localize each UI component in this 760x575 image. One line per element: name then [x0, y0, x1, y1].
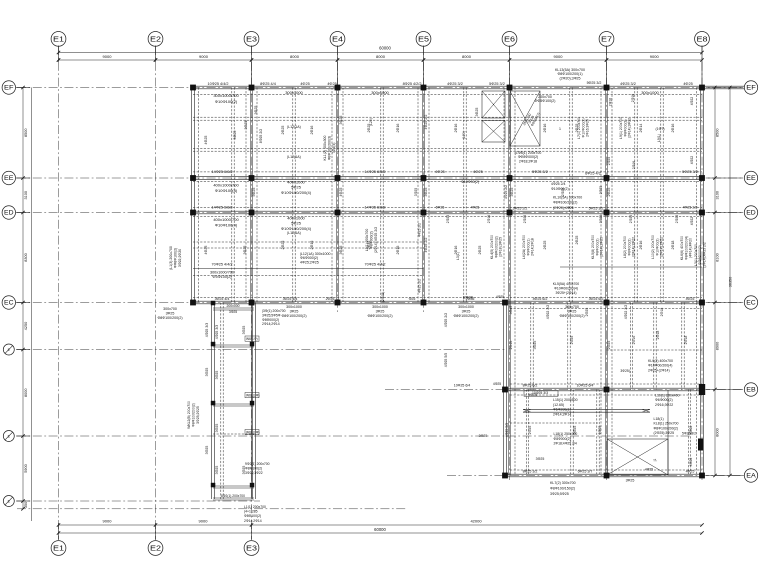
extension line E1 bottom — [58, 523, 60, 540]
svg-text:3Φ25: 3Φ25 — [339, 246, 343, 255]
svg-text:E: E — [8, 435, 11, 439]
beam KL on axis EE — [193, 176, 702, 178]
svg-text:3Φ25: 3Φ25 — [536, 457, 545, 461]
svg-text:(2Φ18): (2Φ18) — [463, 295, 474, 299]
svg-text:E2: E2 — [150, 34, 161, 43]
svg-text:4Φ22: 4Φ22 — [689, 458, 693, 467]
svg-text:4Φ25 5/5: 4Φ25 5/5 — [505, 423, 509, 438]
svg-text:9000: 9000 — [199, 519, 209, 524]
axis bubble EF right — [744, 81, 757, 94]
column x193 axis EF — [190, 85, 196, 91]
svg-text:2Φ25: 2Φ25 — [585, 308, 589, 317]
slab panel edge y207 — [193, 207, 702, 209]
column x702 axis EF — [699, 85, 705, 91]
svg-text:300x1000: 300x1000 — [372, 305, 388, 309]
svg-text:4Φ25: 4Φ25 — [645, 468, 653, 472]
svg-text:Φ8Φ000(2): Φ8Φ000(2) — [554, 437, 571, 441]
column strip left mid strip — [211, 401, 216, 406]
svg-text:8900: 8900 — [716, 342, 720, 350]
beam KL on axis EC — [193, 300, 702, 302]
secondary beam y248 — [193, 247, 424, 249]
svg-text:4Φ25 5/5: 4Φ25 5/5 — [444, 353, 448, 368]
slab panel edge wing y308 — [510, 308, 702, 310]
svg-text:4Φ25: 4Φ25 — [327, 82, 336, 86]
svg-text:2Φ25: 2Φ25 — [326, 297, 335, 301]
secondary beam wing lower x527 (double dashed) — [525, 390, 527, 476]
svg-text:300x1000/700: 300x1000/700 — [213, 93, 239, 98]
secondary beam x465 (double dashed) — [463, 88, 465, 303]
axis bubble ED left — [2, 206, 15, 219]
svg-text:2Φ25: 2Φ25 — [607, 157, 611, 165]
svg-text:8Φ25 6/2: 8Φ25 6/2 — [523, 384, 538, 388]
beam wing right edge — [700, 303, 702, 476]
svg-text:3Φ25: 3Φ25 — [229, 310, 237, 314]
slab panel edge x601 — [600, 88, 602, 303]
slab panel edge y297 — [193, 297, 702, 299]
svg-text:2Φ16: 2Φ16 — [396, 124, 400, 133]
svg-text:3Φ25: 3Φ25 — [166, 311, 175, 315]
svg-text:2Φ16: 2Φ16 — [671, 124, 675, 133]
svg-text:60000: 60000 — [374, 527, 386, 532]
secondary beam x662 (double dashed) — [660, 88, 662, 303]
svg-text:(2Φ14);2Φ25: (2Φ14);2Φ25 — [600, 237, 604, 257]
secondary beam y148 — [193, 147, 702, 149]
grid line E3 — [251, 46, 253, 539]
svg-text:4Φ25 2/2: 4Φ25 2/2 — [418, 223, 422, 237]
svg-text:3100: 3100 — [716, 191, 720, 199]
column x423 axis ED — [421, 210, 427, 216]
column strip right EC — [250, 301, 255, 306]
svg-text:9000: 9000 — [554, 54, 564, 59]
svg-text:Φ8Φ100/200(2): Φ8Φ100/200(2) — [453, 314, 478, 318]
svg-text:ΦΦ5Φ100(2): ΦΦ5Φ100(2) — [535, 99, 556, 103]
svg-text:2Φ18;2Φ18: 2Φ18;2Φ18 — [519, 159, 537, 163]
svg-text:4250: 4250 — [24, 322, 28, 330]
svg-text:5Φ25 3/2: 5Φ25 3/2 — [489, 82, 505, 86]
axis bubble ED right — [744, 206, 757, 219]
svg-text:10Φ25 6/4: 10Φ25 6/4 — [454, 384, 470, 388]
column strip left sub-axis 1 — [211, 342, 216, 347]
secondary beam wing y350 — [607, 349, 703, 351]
svg-text:3Φ25 2/2: 3Φ25 2/2 — [513, 207, 528, 211]
svg-text:2Φ25: 2Φ25 — [575, 236, 579, 245]
svg-text:EE: EE — [4, 175, 14, 182]
slab panel edge x696 — [696, 88, 698, 303]
grid line sub-axis 3 — [17, 500, 260, 502]
svg-text:(2Φ14);2Φ22: (2Φ14);2Φ22 — [632, 237, 636, 257]
svg-text:3Φ25: 3Φ25 — [568, 309, 577, 313]
stair opening with X brace bottom — [607, 439, 668, 475]
svg-text:E2: E2 — [150, 543, 161, 552]
column line E7 in band — [605, 88, 607, 303]
svg-text:9000: 9000 — [199, 54, 209, 59]
svg-text:KL10(5A) 300x700: KL10(5A) 300x700 — [553, 196, 582, 200]
svg-text:4Φ25: 4Φ25 — [339, 188, 343, 197]
svg-text:Φ25: Φ25 — [409, 297, 416, 301]
beam strip bottom y499 — [213, 497, 254, 499]
svg-text:Φ8Φ100/200(3): Φ8Φ100/200(3) — [327, 136, 331, 160]
secondary beam strip y434 — [213, 433, 254, 435]
svg-text:3Φ25: 3Φ25 — [205, 446, 209, 455]
column x337 axis EC — [335, 300, 341, 306]
svg-text:9000: 9000 — [650, 54, 660, 59]
svg-text:E1: E1 — [53, 34, 64, 43]
column x423 axis EC — [421, 300, 427, 306]
svg-text:2Φ16: 2Φ16 — [310, 241, 314, 250]
svg-text:2Φ25: 2Φ25 — [675, 215, 679, 223]
svg-text:14Φ25 6/8/2: 14Φ25 6/8/2 — [212, 206, 233, 210]
svg-text:8100: 8100 — [716, 253, 720, 261]
svg-text:400x1000/700: 400x1000/700 — [213, 217, 239, 222]
svg-text:EA: EA — [746, 473, 756, 480]
dim line right outer — [729, 88, 731, 476]
column x193 axis EE — [190, 175, 196, 181]
grid line sub-axis 1 — [17, 349, 505, 351]
svg-text:4Φ25 3/3: 4Φ25 3/3 — [215, 325, 219, 340]
svg-text:3Φ25 6/2: 3Φ25 6/2 — [589, 297, 604, 301]
svg-text:3100: 3100 — [24, 191, 28, 199]
svg-text:(2Φ20);4Φ25: (2Φ20);4Φ25 — [553, 206, 574, 210]
svg-text:14Φ25 6/6/2: 14Φ25 6/6/2 — [365, 170, 386, 174]
svg-text:ED: ED — [4, 210, 14, 217]
svg-text:8000: 8000 — [462, 54, 472, 59]
svg-text:Φ10Φ100(4): Φ10Φ100(4) — [215, 188, 238, 193]
svg-text:Φ8Φ000(2): Φ8Φ000(2) — [262, 318, 279, 322]
secondary beam wing y423 — [510, 422, 598, 424]
svg-text:4Φ22 2/2: 4Φ22 2/2 — [624, 305, 628, 320]
beam strip right edge x254 — [252, 303, 254, 500]
slab panel edge y275 — [193, 275, 424, 277]
axis bubble sub-axis 2 left — [3, 431, 14, 442]
svg-text:E1: E1 — [53, 543, 64, 552]
svg-text:Φ8Φ100/200(2): Φ8Φ100/200(2) — [157, 316, 182, 320]
svg-text:5Φ25 3/2: 5Φ25 3/2 — [587, 81, 602, 85]
grid line E4 — [337, 46, 339, 312]
beam strip y405 — [213, 403, 254, 405]
svg-text:2Φ18: 2Φ18 — [660, 308, 664, 317]
secondary beam strip x222 (double dashed) — [220, 303, 222, 500]
flat slab strip symbol y410 — [523, 408, 650, 410]
svg-text:2Φ25: 2Φ25 — [446, 215, 450, 223]
svg-text:3Φ25: 3Φ25 — [509, 306, 513, 315]
column x606 axis EE — [604, 175, 610, 181]
svg-text:Φ10Φ00/200(4): Φ10Φ00/200(4) — [648, 364, 672, 368]
svg-text:3Φ25: 3Φ25 — [243, 246, 247, 255]
svg-text:3Φ25|: 3Φ25| — [620, 369, 629, 373]
secondary beam wing x532 (double dashed) — [530, 303, 532, 390]
extension line E1 top — [58, 46, 60, 63]
svg-text:L15(1) 200x500: L15(1) 200x500 — [553, 398, 578, 402]
svg-text:4Φ22 2/2: 4Φ22 2/2 — [546, 305, 550, 320]
svg-text:3Φ25: 3Φ25 — [215, 466, 219, 475]
svg-text:2Φ16: 2Φ16 — [639, 241, 643, 250]
axis bubble EE left — [2, 171, 15, 184]
svg-text:|L12(1A): |L12(1A) — [287, 155, 301, 159]
leader line y267 right — [560, 266, 702, 268]
svg-text:2Φ25+(2Φ14): 2Φ25+(2Φ14) — [648, 368, 670, 372]
beam at stair right x668 — [667, 390, 669, 476]
svg-text:2Φ16: 2Φ16 — [631, 94, 635, 102]
svg-text:300x700: 300x700 — [163, 307, 177, 311]
slab panel edge wing y384 — [510, 383, 702, 385]
secondary beam wing lower x572 (double dashed) — [570, 390, 572, 476]
svg-text:E3: E3 — [246, 34, 257, 43]
beam KL on axis EA — [505, 473, 702, 475]
extension line E4 top — [337, 46, 339, 88]
axis bubble E1 bottom — [51, 541, 66, 556]
svg-text:2Φ16;3Φ25: 2Φ16;3Φ25 — [586, 119, 590, 137]
svg-text:|1: |1 — [653, 458, 657, 461]
secondary beam x233 (double dashed) — [231, 88, 233, 303]
svg-text:2Φ16: 2Φ16 — [632, 336, 636, 345]
column x702 axis ED — [699, 210, 705, 216]
svg-text:E: E — [8, 348, 11, 352]
slab panel edge x515 — [514, 88, 516, 303]
secondary beam y117 — [193, 116, 702, 118]
svg-text:|L12(1A): |L12(1A) — [287, 125, 301, 129]
axis bubble EF left — [2, 81, 15, 94]
svg-text:2Φ25: 2Φ25 — [599, 186, 603, 194]
slab panel edge x343 — [342, 88, 344, 303]
axis bubble E5 top — [416, 32, 431, 47]
svg-text:W6L(2Φ): W6L(2Φ) — [246, 394, 259, 398]
grid line E6 — [509, 46, 511, 480]
svg-text:8500: 8500 — [716, 129, 720, 137]
svg-text:(4Φ14);4Φ20: (4Φ14);4Φ20 — [689, 238, 693, 258]
svg-text:4Φ25: 4Φ25 — [493, 382, 501, 386]
svg-text:EF: EF — [4, 85, 14, 92]
svg-text:2Φ25: 2Φ25 — [598, 426, 602, 435]
axis bubble EE right — [744, 171, 757, 184]
svg-text:4Φ25: 4Φ25 — [204, 246, 208, 255]
slab panel edge wing x515 — [514, 303, 516, 476]
svg-text:|L12(1A): |L12(1A) — [287, 231, 301, 235]
axis bubble E3 bottom — [244, 541, 259, 556]
beam strip y487 — [213, 485, 254, 487]
column x702 axis EC — [699, 300, 705, 306]
svg-text:8000: 8000 — [24, 389, 28, 397]
axis bubble E2 bottom — [148, 541, 163, 556]
svg-text:3Φ25: 3Φ25 — [339, 116, 343, 125]
column x509 axis ED — [507, 210, 513, 216]
dim line left — [22, 88, 24, 509]
svg-text:E6: E6 — [504, 34, 515, 43]
column x606 axis ED — [604, 210, 610, 216]
column x606 axis EB — [604, 387, 610, 393]
svg-text:2Φ25: 2Φ25 — [607, 188, 611, 197]
svg-text:200x000: 200x000 — [226, 304, 239, 308]
beam intermediate y268 left — [193, 268, 424, 270]
svg-text:EC: EC — [746, 300, 756, 307]
svg-text:3Φ25: 3Φ25 — [414, 188, 418, 196]
svg-text:2Φ25: 2Φ25 — [543, 241, 547, 250]
column x193 axis ED — [190, 210, 196, 216]
svg-text:4Φ25 2/2: 4Φ25 2/2 — [418, 279, 422, 293]
svg-text:300x1000: 300x1000 — [641, 90, 659, 95]
column x423 axis EF — [421, 85, 427, 91]
svg-text:L1(1) 200x700: L1(1) 200x700 — [244, 505, 266, 509]
secondary beam wing lower x598 (double dashed) — [596, 390, 598, 476]
slab panel edge y94 — [193, 94, 702, 96]
beam KL on axis EB — [505, 387, 702, 389]
svg-text:300x1000: 300x1000 — [285, 90, 303, 95]
svg-text:8300: 8300 — [24, 253, 28, 261]
column x606 axis EA — [604, 473, 610, 479]
svg-text:2Φ18: 2Φ18 — [656, 331, 660, 340]
grid line E2 — [155, 46, 157, 539]
svg-text:E5: E5 — [418, 34, 429, 43]
svg-text:2Φ16: 2Φ16 — [487, 215, 491, 223]
column line E6 in wing — [508, 303, 510, 476]
svg-text:KL5(5A) 400x700: KL5(5A) 400x700 — [553, 282, 580, 286]
grid line E7 — [606, 46, 608, 480]
svg-text:4Φ25 2/2: 4Φ25 2/2 — [444, 313, 448, 328]
column strip right mid strip — [250, 401, 255, 406]
slab panel edge y181 — [193, 181, 702, 183]
column x505 axis EB — [502, 387, 508, 393]
svg-text:4Φ22: 4Φ22 — [690, 97, 694, 105]
secondary beam wing x569 (double dashed) — [567, 303, 569, 390]
svg-text:(12.65): (12.65) — [553, 403, 564, 407]
svg-text:6Φ25 4/2: 6Φ25 4/2 — [585, 172, 601, 176]
svg-text:Φ10Φ00(2): Φ10Φ00(2) — [551, 187, 569, 191]
grid line E5 — [423, 46, 425, 312]
svg-text:3Φ25: 3Φ25 — [510, 188, 514, 197]
column strip left EC — [211, 301, 216, 306]
svg-text:3Φ25: 3Φ25 — [290, 309, 299, 313]
column x702 axis EA — [699, 473, 705, 479]
svg-text:3Φ25: 3Φ25 — [215, 424, 219, 433]
slab panel edge x418 — [417, 88, 419, 303]
svg-text:(L1(3) 200x700: (L1(3) 200x700 — [169, 246, 173, 270]
svg-text:300x1000: 300x1000 — [371, 90, 389, 95]
secondary beam edge y120 — [193, 119, 702, 121]
svg-text:3Φ25+(2Φ14): 3Φ25+(2Φ14) — [556, 291, 577, 295]
svg-text:Φ8Φ100(2): Φ8Φ100(2) — [244, 514, 261, 518]
svg-text:3Φ22;2Φ20: 3Φ22;2Φ20 — [178, 249, 182, 267]
secondary beam wing lower x689 (double dashed) — [687, 390, 689, 476]
svg-text:2Φ14: 2Φ14 — [639, 124, 643, 133]
grid line E1 — [58, 46, 60, 539]
svg-text:5Φ25 3/2: 5Φ25 3/2 — [589, 207, 604, 211]
svg-text:2Φ14;2Φ14: 2Φ14;2Φ14 — [262, 322, 280, 326]
axis bubble EC right — [744, 296, 757, 309]
column line E3 in strip — [251, 303, 253, 500]
svg-text:Φ6Φ200(1): Φ6Φ200(1) — [553, 408, 571, 412]
wall pier right edge y445 — [698, 439, 703, 451]
svg-text:4Φ25 2/2: 4Φ25 2/2 — [424, 238, 428, 253]
svg-text:2Φ18: 2Φ18 — [671, 241, 675, 250]
column x251 axis EE — [249, 175, 255, 181]
svg-text:(2Φ20);3Φ25: (2Φ20);3Φ25 — [559, 76, 580, 80]
beam strip y309 — [213, 307, 254, 309]
svg-text:2Φ25: 2Φ25 — [478, 246, 482, 255]
dim line right — [714, 88, 716, 476]
svg-text:4Φ22: 4Φ22 — [690, 217, 694, 225]
svg-text:3Φ25;5Φ25: 3Φ25;5Φ25 — [550, 492, 569, 496]
svg-text:2Φ16: 2Φ16 — [543, 124, 547, 133]
svg-text:3Φ22;3Φ22: 3Φ22;3Φ22 — [245, 471, 263, 475]
svg-text:EE: EE — [746, 175, 756, 182]
svg-text:Φ10Φ00/200(4): Φ10Φ00/200(4) — [554, 286, 578, 290]
column x702 axis EB (wall pier) — [699, 384, 705, 395]
column x251 axis EF — [249, 85, 255, 91]
svg-text:8000: 8000 — [716, 428, 720, 436]
svg-text:Φ8Φ100/200(2): Φ8Φ100/200(2) — [191, 403, 195, 427]
svg-text:4Φ25 2/2: 4Φ25 2/2 — [683, 206, 698, 210]
svg-text:E: E — [8, 500, 11, 504]
svg-text:E7: E7 — [601, 34, 612, 43]
column x606 axis EF — [604, 85, 610, 91]
svg-text:3Φ25: 3Φ25 — [215, 371, 219, 380]
svg-text:14Φ25 6/8/2: 14Φ25 6/8/2 — [365, 206, 386, 210]
svg-text:(4+1.285: (4+1.285 — [244, 510, 258, 514]
column x505 axis EA — [502, 473, 508, 479]
beam left edge x193 — [191, 88, 193, 303]
axis bubble EA right — [744, 469, 757, 482]
dim line segments top — [59, 59, 703, 61]
svg-text:3Φ25: 3Φ25 — [376, 309, 385, 313]
svg-text:2Φ16: 2Φ16 — [396, 246, 400, 255]
svg-text:6Φ25: 6Φ25 — [435, 170, 444, 174]
grid line ED — [17, 212, 744, 214]
svg-text:(1Φ7): (1Φ7) — [655, 127, 664, 131]
svg-text:(2Φ14);4Φ25 2/2: (2Φ14);4Φ25 2/2 — [702, 242, 706, 268]
svg-text:8500: 8500 — [24, 129, 28, 137]
axis bubble sub-axis 1 left — [3, 344, 14, 355]
svg-text:4Φ25: 4Φ25 — [686, 297, 695, 301]
dim line bottom 2 — [59, 532, 703, 534]
svg-text:5Φ25 3/2: 5Φ25 3/2 — [682, 170, 698, 174]
column x509 axis EE — [507, 175, 513, 181]
slab panel edge x246 — [245, 88, 247, 303]
shaft opening 2 with X brace — [482, 121, 505, 143]
column strip right sub-axis 1 — [250, 342, 255, 347]
svg-text:L3(1): L3(1) — [456, 252, 460, 260]
svg-text:4Φ25 3/2: 4Φ25 3/2 — [447, 82, 463, 86]
grid line sub-axis 2 — [17, 435, 690, 437]
column strip left strip lower — [211, 483, 216, 488]
grid line EF — [17, 87, 744, 89]
column line E5 in band — [422, 88, 424, 303]
svg-text:Φ5Φ100(2): Φ5Φ100(2) — [212, 275, 232, 279]
axis bubble E4 top — [330, 32, 345, 47]
svg-text:Φ8Φ100/200(2): Φ8Φ100/200(2) — [559, 314, 584, 318]
extension line E2 top — [155, 46, 157, 63]
svg-text:(L20): (L20) — [462, 131, 466, 139]
extension line E3 top — [251, 46, 253, 88]
grid line EB — [385, 389, 744, 391]
slab panel edge x332 — [331, 88, 333, 303]
svg-text:2Φ25: 2Φ25 — [570, 336, 574, 345]
shaft opening 3 with X brace — [510, 91, 540, 146]
svg-text:Φ10Φ100/200(4): Φ10Φ100/200(4) — [281, 190, 312, 195]
axis bubble EB right — [744, 383, 757, 396]
slab panel edge y216 — [193, 216, 702, 218]
svg-text:6Φ25 3/7: 6Φ25 3/7 — [578, 470, 593, 474]
secondary beam x294 (double dashed) — [292, 88, 294, 303]
svg-text:EF: EF — [746, 85, 756, 92]
beam strip left edge x213 — [211, 303, 213, 500]
beam right edge x702 — [700, 88, 702, 303]
svg-text:W6(1Φ): W6(1Φ) — [246, 337, 258, 341]
svg-text:2Φ16;3Φ22: 2Φ16;3Φ22 — [655, 403, 673, 407]
svg-text:(2Φ14);3Φ22: (2Φ14);3Φ22 — [628, 118, 632, 138]
axis bubble E1 top — [51, 32, 66, 47]
slab panel edge x198 — [198, 88, 200, 303]
svg-text:5Φ25 3/2: 5Φ25 3/2 — [532, 170, 548, 174]
svg-text:4Φ25 2/4: 4Φ25 2/4 — [551, 182, 566, 186]
